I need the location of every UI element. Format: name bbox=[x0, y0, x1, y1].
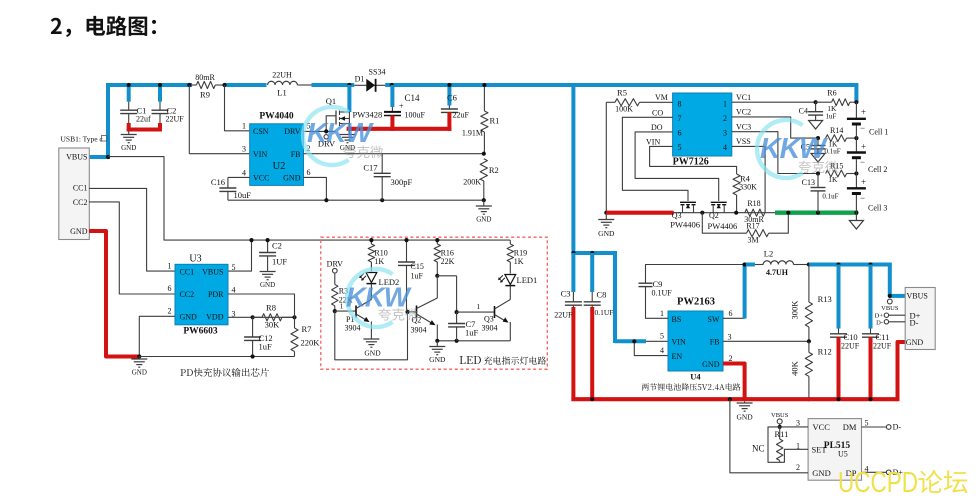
capacitor C12 1uF bbox=[252, 317, 254, 337]
svg-text:U2: U2 bbox=[273, 161, 286, 172]
svg-text:4.7UH: 4.7UH bbox=[766, 268, 789, 277]
svg-text:KKW: KKW bbox=[307, 117, 374, 148]
capacitor C5 0.1uF bbox=[816, 136, 820, 140]
svg-text:GND: GND bbox=[429, 355, 446, 364]
svg-text:C11: C11 bbox=[876, 332, 890, 342]
svg-text:C13: C13 bbox=[802, 178, 815, 187]
watermark KKW logo 3 bbox=[347, 269, 393, 327]
svg-text:R1: R1 bbox=[490, 116, 500, 126]
capacitor C9 0.1UF bbox=[639, 282, 653, 284]
terminal DRV near U2 bbox=[324, 135, 328, 139]
svg-text:C17: C17 bbox=[363, 163, 377, 173]
resistor R19 1K bbox=[509, 240, 511, 244]
wire U2 GND to bottom line bbox=[304, 177, 327, 200]
label LED indicator circuit bbox=[460, 356, 481, 364]
resistor R5 100K bbox=[615, 99, 640, 106]
wire VIN net: rail to U2 pin3 bbox=[188, 85, 190, 154]
svg-text:SET: SET bbox=[812, 445, 828, 455]
wire red U4 gnd bbox=[723, 364, 745, 400]
svg-text:3: 3 bbox=[796, 419, 800, 428]
svg-text:Cell 1: Cell 1 bbox=[869, 127, 888, 136]
svg-text:R10: R10 bbox=[374, 248, 387, 257]
svg-text:GND: GND bbox=[598, 229, 615, 238]
transistor P1 3904 npn bbox=[370, 284, 372, 296]
capacitor C15 1uF bbox=[406, 240, 408, 262]
wire NC loop bbox=[768, 427, 808, 462]
svg-text:GND: GND bbox=[132, 369, 147, 377]
ground under red bus bbox=[744, 401, 746, 403]
svg-text:SS34: SS34 bbox=[369, 68, 386, 77]
svg-text:1: 1 bbox=[340, 302, 344, 311]
svg-text:R8: R8 bbox=[266, 303, 276, 313]
wire DM to D- bbox=[862, 426, 887, 428]
svg-text:VIN: VIN bbox=[646, 138, 660, 147]
wire U3 GND pin2 to gnd bus bbox=[139, 316, 175, 356]
svg-text:22UF: 22UF bbox=[841, 342, 860, 351]
capacitor C11 22UF bbox=[869, 265, 873, 329]
svg-text:PW4406: PW4406 bbox=[670, 220, 700, 230]
title 2, dianlutu: bbox=[51, 16, 156, 37]
wire VC2 net bbox=[732, 117, 818, 138]
label two-cell buck 5V2.4A bbox=[642, 383, 741, 390]
wire CC1 bbox=[89, 188, 175, 271]
svg-text:PW4406: PW4406 bbox=[708, 221, 738, 231]
svg-text:4: 4 bbox=[660, 346, 664, 355]
svg-text:R14: R14 bbox=[830, 126, 843, 135]
svg-text:R12: R12 bbox=[818, 347, 832, 357]
resistor R9 80mR bbox=[192, 84, 196, 86]
svg-text:+: + bbox=[399, 102, 404, 111]
svg-text:1: 1 bbox=[168, 262, 172, 271]
svg-text:PW6603: PW6603 bbox=[183, 327, 218, 337]
svg-text:U5: U5 bbox=[838, 450, 848, 459]
wire VC1 net bbox=[732, 101, 816, 103]
svg-text:1: 1 bbox=[660, 309, 664, 318]
svg-text:10uF: 10uF bbox=[234, 190, 252, 200]
svg-text:+: + bbox=[861, 107, 866, 117]
svg-text:Q3: Q3 bbox=[672, 211, 682, 220]
svg-text:C6: C6 bbox=[447, 93, 457, 103]
svg-text:6: 6 bbox=[729, 309, 733, 318]
resistor R12 40K bbox=[808, 341, 810, 352]
chip PW7126 battery protection bbox=[673, 93, 732, 156]
capacitor C16 10uF bbox=[228, 176, 250, 178]
svg-text:CO: CO bbox=[652, 108, 663, 117]
svg-text:−: − bbox=[860, 193, 865, 203]
transistor Q2 3904 npn bbox=[416, 306, 418, 318]
svg-text:FB: FB bbox=[710, 338, 720, 347]
wire VDD net pin3 bbox=[228, 316, 294, 318]
svg-text:R18: R18 bbox=[747, 199, 760, 208]
wire Q1 source to gnd bbox=[348, 112, 350, 129]
wire PDR net pin4 bbox=[228, 294, 295, 312]
svg-text:LED1: LED1 bbox=[517, 275, 538, 285]
svg-text:CC2: CC2 bbox=[180, 290, 195, 299]
svg-text:22UF: 22UF bbox=[873, 342, 892, 351]
svg-text:R5: R5 bbox=[617, 88, 627, 98]
svg-text:USB1: Type c: USB1: Type c bbox=[61, 135, 104, 144]
wire red to output connector gnd bbox=[898, 342, 906, 401]
svg-text:KKW: KKW bbox=[346, 282, 412, 313]
wire top power rail blue bbox=[106, 83, 192, 87]
svg-text:D1: D1 bbox=[355, 75, 365, 84]
wire GND net PL515 bbox=[730, 399, 808, 473]
resistor R17 3M loop bbox=[702, 213, 746, 234]
svg-text:1UF: 1UF bbox=[272, 257, 287, 267]
svg-text:VCC: VCC bbox=[253, 174, 269, 183]
terminal DRV in LED box bbox=[333, 268, 338, 273]
inductor L1 22UH bbox=[268, 81, 298, 85]
resistor R2 200K bbox=[480, 159, 487, 181]
svg-text:2: 2 bbox=[168, 307, 172, 316]
wire SW node bbox=[723, 317, 745, 319]
svg-text:220K: 220K bbox=[301, 338, 321, 348]
svg-text:300pF: 300pF bbox=[391, 177, 413, 187]
svg-text:EN: EN bbox=[672, 352, 683, 361]
wire Q2 base bbox=[407, 311, 417, 313]
svg-text:0.1UF: 0.1UF bbox=[652, 289, 673, 298]
svg-text:VIN: VIN bbox=[253, 150, 267, 159]
wire VSS net bbox=[732, 146, 765, 212]
wire CC2 bbox=[89, 202, 175, 294]
svg-text:0.1uF: 0.1uF bbox=[822, 193, 838, 201]
svg-text:3: 3 bbox=[723, 128, 727, 137]
svg-text:GND: GND bbox=[906, 338, 924, 347]
wire battery negative sense line bbox=[606, 212, 775, 214]
resistor R16 22K bbox=[436, 240, 438, 244]
ground left of Q3 bbox=[605, 213, 607, 220]
svg-text:U3: U3 bbox=[189, 254, 201, 265]
svg-text:R7: R7 bbox=[302, 324, 312, 334]
svg-text:L1: L1 bbox=[277, 88, 286, 98]
capacitor C13 0.1uF bbox=[816, 171, 820, 175]
svg-text:0.1uF: 0.1uF bbox=[825, 148, 841, 156]
battery Cell 2 bbox=[855, 138, 857, 152]
terminal VBUS stub bbox=[887, 299, 892, 304]
svg-text:UCCPD: UCCPD bbox=[838, 467, 918, 498]
svg-text:4: 4 bbox=[232, 286, 236, 295]
resistor R1 1.91M bbox=[483, 85, 485, 111]
svg-text:R13: R13 bbox=[818, 294, 832, 304]
wire blue battery feed to C3 C8 bbox=[573, 251, 617, 255]
capacitor C17 300pF bbox=[381, 154, 383, 174]
chip U4 PW2163 bbox=[668, 311, 723, 371]
wire red output gnd bus top bbox=[347, 127, 452, 131]
svg-text:3: 3 bbox=[242, 145, 246, 154]
svg-text:Cell 2: Cell 2 bbox=[868, 165, 887, 174]
svg-text:C10: C10 bbox=[844, 332, 858, 342]
svg-text:GND: GND bbox=[260, 281, 275, 289]
wire blue output rail bbox=[809, 263, 892, 267]
chip U5 PL515 bbox=[808, 419, 861, 481]
wire VBUS net to PD chip bbox=[108, 157, 510, 241]
svg-text:22uf: 22uf bbox=[136, 115, 151, 124]
svg-text:SW: SW bbox=[708, 315, 720, 324]
svg-text:VCC: VCC bbox=[813, 422, 831, 432]
wire LED box bottom line bbox=[437, 340, 510, 342]
svg-text:CC2: CC2 bbox=[73, 198, 88, 207]
wire VCC net bbox=[779, 424, 781, 427]
svg-text:−: − bbox=[860, 123, 865, 133]
watermark KKW logo 2 bbox=[757, 120, 803, 178]
resistor R18 30mR bbox=[745, 209, 765, 216]
capacitor C2 22UF bbox=[158, 85, 162, 102]
svg-text:+: + bbox=[861, 142, 866, 152]
svg-text:DRV: DRV bbox=[284, 127, 300, 136]
svg-text:1K: 1K bbox=[374, 257, 384, 266]
svg-text:1uF: 1uF bbox=[465, 328, 479, 338]
LED1 bbox=[505, 275, 516, 285]
wire blue VIN segment bbox=[615, 339, 646, 343]
wire Q1 drain to rail bbox=[347, 85, 351, 112]
svg-text:VIN: VIN bbox=[672, 338, 686, 347]
svg-text:GND: GND bbox=[121, 144, 136, 152]
wire U3 bottom gnd line bbox=[139, 356, 294, 358]
terminal D- stub bbox=[889, 321, 906, 323]
svg-text:R19: R19 bbox=[514, 248, 527, 257]
wire gnd line under U2 bbox=[228, 199, 484, 201]
svg-text:80mR: 80mR bbox=[195, 73, 215, 82]
svg-text:R6: R6 bbox=[827, 89, 836, 98]
watermark KKW logo 1 bbox=[303, 107, 349, 165]
ground under C1 bbox=[128, 131, 130, 134]
svg-text:1K: 1K bbox=[514, 257, 524, 266]
svg-text:5: 5 bbox=[678, 143, 682, 152]
svg-text:3: 3 bbox=[728, 332, 732, 341]
svg-text:GND: GND bbox=[476, 216, 491, 224]
wire U3 pin5 VBUS stub bbox=[228, 240, 252, 271]
wire R16 to C7 top bbox=[437, 275, 456, 277]
battery Cell 1 bbox=[855, 102, 857, 118]
dashed box LED indicator circuit bbox=[321, 237, 548, 369]
svg-text:CSN: CSN bbox=[253, 127, 269, 136]
wire red gnd segment to Q3 bbox=[606, 211, 673, 215]
svg-text:22K: 22K bbox=[441, 257, 455, 266]
svg-text:1K: 1K bbox=[828, 140, 838, 149]
capacitor C1 22uf bbox=[127, 85, 131, 102]
resistor R15 1K bbox=[826, 170, 847, 177]
ground under R2 bbox=[483, 200, 485, 206]
svg-text:PW4040: PW4040 bbox=[259, 112, 294, 122]
capacitor C6 22uF bbox=[447, 85, 451, 106]
svg-text:DM: DM bbox=[843, 422, 857, 432]
svg-text:2: 2 bbox=[729, 354, 733, 363]
resistor R10 1K bbox=[370, 240, 372, 244]
capacitor C2 1UF bbox=[267, 240, 269, 252]
chip U3 PW6603 PD protocol bbox=[175, 264, 228, 325]
ground triangle under battery bbox=[855, 213, 857, 221]
transistor Q1 PW3428 nmos bbox=[335, 111, 337, 125]
svg-text:D-: D- bbox=[910, 318, 919, 328]
transistor Q3 3904 npn bbox=[494, 306, 496, 318]
ground at U3 gnd bus bbox=[137, 354, 141, 358]
wire BS bootstrap loop bbox=[646, 287, 669, 318]
wire DP to D+ bbox=[862, 471, 887, 473]
wire thick blue drop at x573 bbox=[571, 83, 575, 255]
svg-text:VM: VM bbox=[655, 93, 668, 102]
connector USB1 Type-C bbox=[59, 148, 90, 240]
svg-text:U4: U4 bbox=[690, 372, 701, 382]
svg-text:VBUS: VBUS bbox=[881, 305, 899, 312]
svg-text:200K: 200K bbox=[463, 178, 481, 187]
capacitor C8 0.1UF bbox=[590, 253, 594, 292]
svg-text:4: 4 bbox=[723, 143, 727, 152]
resistor R4 330K bbox=[733, 174, 740, 195]
svg-text:C15: C15 bbox=[411, 262, 424, 271]
ground under C2-1UF bbox=[260, 271, 276, 273]
svg-text:VC1: VC1 bbox=[736, 93, 751, 102]
svg-text:1K: 1K bbox=[828, 175, 838, 184]
svg-text:VBUS: VBUS bbox=[66, 153, 87, 162]
svg-text:0.1UF: 0.1UF bbox=[595, 308, 614, 317]
capacitor C3 22UF bbox=[571, 253, 575, 292]
svg-text:GND: GND bbox=[736, 413, 753, 422]
svg-text:GND: GND bbox=[283, 174, 301, 183]
wire green battery negative bbox=[775, 210, 858, 214]
wire GND red from USB bbox=[89, 231, 140, 357]
label PD fast-charge chip bbox=[181, 368, 269, 377]
svg-text:1uF: 1uF bbox=[826, 113, 837, 121]
svg-text:DO: DO bbox=[651, 123, 663, 132]
svg-text:4: 4 bbox=[242, 168, 246, 177]
wire R5 left to gnd bbox=[605, 102, 607, 212]
svg-text:22uF: 22uF bbox=[453, 111, 470, 120]
svg-text:C8: C8 bbox=[597, 290, 607, 300]
svg-text:1: 1 bbox=[476, 302, 480, 311]
svg-text:VC2: VC2 bbox=[736, 108, 751, 117]
svg-text:+: + bbox=[861, 177, 866, 187]
svg-text:Q2: Q2 bbox=[709, 211, 719, 220]
capacitor C14 100uF polarized bbox=[390, 85, 394, 107]
wire FB net U2 pin2 bbox=[304, 153, 485, 155]
svg-text:L2: L2 bbox=[764, 249, 773, 259]
svg-text:330K: 330K bbox=[739, 183, 757, 192]
svg-text:100K: 100K bbox=[615, 105, 633, 114]
svg-text:GND: GND bbox=[702, 360, 720, 369]
svg-text:22UH: 22UH bbox=[272, 71, 292, 80]
LED2 bbox=[366, 273, 377, 283]
svg-text:1K: 1K bbox=[827, 104, 837, 113]
svg-text:5: 5 bbox=[865, 419, 869, 428]
wire right rail drop to battery bbox=[854, 85, 858, 102]
svg-text:PW2163: PW2163 bbox=[677, 297, 715, 308]
svg-text:VC3: VC3 bbox=[736, 122, 751, 131]
svg-text:6: 6 bbox=[307, 168, 311, 177]
svg-text:1uF: 1uF bbox=[411, 272, 424, 281]
svg-text:1.91M: 1.91M bbox=[462, 129, 483, 138]
svg-text:−: − bbox=[860, 157, 865, 167]
svg-text:FB: FB bbox=[291, 150, 301, 159]
svg-text:GND: GND bbox=[70, 227, 88, 236]
svg-text:D-: D- bbox=[893, 423, 902, 432]
svg-text:C4: C4 bbox=[799, 107, 808, 116]
diode D1 SS34 bbox=[354, 84, 385, 86]
svg-text:R11: R11 bbox=[775, 429, 789, 439]
resistor R11 bbox=[779, 427, 781, 439]
resistor R13 300K bbox=[808, 265, 810, 303]
svg-text:6: 6 bbox=[678, 128, 682, 137]
svg-text:5: 5 bbox=[660, 332, 664, 341]
wire red C1-C2 ground bar bbox=[127, 128, 162, 132]
svg-text:22UF: 22UF bbox=[166, 115, 185, 124]
wire CSN net: rail to U2 pin1 bbox=[225, 85, 250, 131]
svg-text:C9: C9 bbox=[653, 279, 663, 289]
svg-text:22UF: 22UF bbox=[554, 311, 573, 320]
ground under P1 bbox=[363, 338, 379, 340]
transistor Q3 PW4406 pmos bbox=[680, 201, 696, 203]
wire P1 base net loop bbox=[335, 310, 356, 312]
svg-text:300K: 300K bbox=[790, 300, 800, 320]
svg-text:8: 8 bbox=[678, 99, 682, 108]
svg-text:NC: NC bbox=[752, 444, 765, 454]
svg-text:VBUS: VBUS bbox=[907, 291, 928, 300]
svg-text:GND: GND bbox=[180, 313, 198, 322]
svg-text:3904: 3904 bbox=[411, 326, 427, 335]
svg-text:VBUS: VBUS bbox=[771, 412, 789, 419]
ground under Q1 bbox=[348, 129, 350, 135]
svg-text:C14: C14 bbox=[405, 93, 421, 103]
svg-text:3M: 3M bbox=[747, 235, 758, 244]
resistor R14 1K bbox=[826, 135, 847, 142]
svg-text:2: 2 bbox=[723, 114, 727, 123]
wire DRV net U2 pin5 to Q1 gate bbox=[304, 130, 336, 132]
svg-text:C16: C16 bbox=[211, 177, 225, 187]
resistor R3 22K bbox=[334, 273, 336, 284]
svg-text:R9: R9 bbox=[200, 90, 210, 100]
svg-text:C3: C3 bbox=[561, 289, 571, 299]
wire Q3 base bbox=[457, 311, 495, 313]
svg-text:DRV: DRV bbox=[327, 260, 343, 269]
svg-text:KKW: KKW bbox=[760, 133, 828, 165]
transistor Q2 PW4406 pmos bbox=[711, 201, 727, 203]
svg-text:R16: R16 bbox=[441, 248, 454, 257]
svg-text:VSS: VSS bbox=[736, 137, 751, 146]
svg-text:5: 5 bbox=[232, 263, 236, 272]
svg-text:VDD: VDD bbox=[206, 313, 224, 322]
wire red ground bus bottom bbox=[571, 397, 897, 401]
svg-text:1: 1 bbox=[242, 122, 246, 131]
resistor R6 1K bbox=[832, 99, 850, 106]
battery Cell 3 bbox=[855, 174, 857, 188]
svg-text:BS: BS bbox=[672, 315, 682, 324]
inductor L2 4.7UH bbox=[746, 263, 755, 267]
svg-text:C2: C2 bbox=[272, 240, 282, 250]
wire FB net U4 bbox=[723, 340, 809, 342]
svg-text:40K: 40K bbox=[790, 360, 800, 376]
capacitor C10 22UF bbox=[837, 265, 841, 329]
ground under Q2 bbox=[436, 341, 438, 347]
svg-text:GND: GND bbox=[364, 349, 381, 358]
terminal VBUS for PL515 bbox=[777, 419, 782, 424]
svg-text:30K: 30K bbox=[265, 320, 281, 330]
wire EN tie to VIN bbox=[634, 341, 668, 355]
svg-text:1: 1 bbox=[723, 99, 727, 108]
wire VC3 net bbox=[732, 132, 818, 174]
svg-text:6: 6 bbox=[168, 284, 172, 293]
svg-text:CC1: CC1 bbox=[180, 268, 195, 277]
connector VBUS output bbox=[905, 288, 935, 350]
svg-text:PDR: PDR bbox=[208, 290, 224, 299]
svg-text:1uF: 1uF bbox=[259, 342, 273, 352]
svg-text:VBUS: VBUS bbox=[202, 268, 223, 277]
svg-text:3904: 3904 bbox=[482, 324, 498, 333]
svg-text:Q1: Q1 bbox=[326, 96, 336, 106]
resistor R7 220K bbox=[294, 312, 296, 329]
svg-text:Q3: Q3 bbox=[484, 314, 494, 323]
svg-text:3904: 3904 bbox=[345, 324, 361, 333]
terminal D+ stub bbox=[889, 314, 906, 316]
svg-text:GND: GND bbox=[812, 468, 830, 478]
